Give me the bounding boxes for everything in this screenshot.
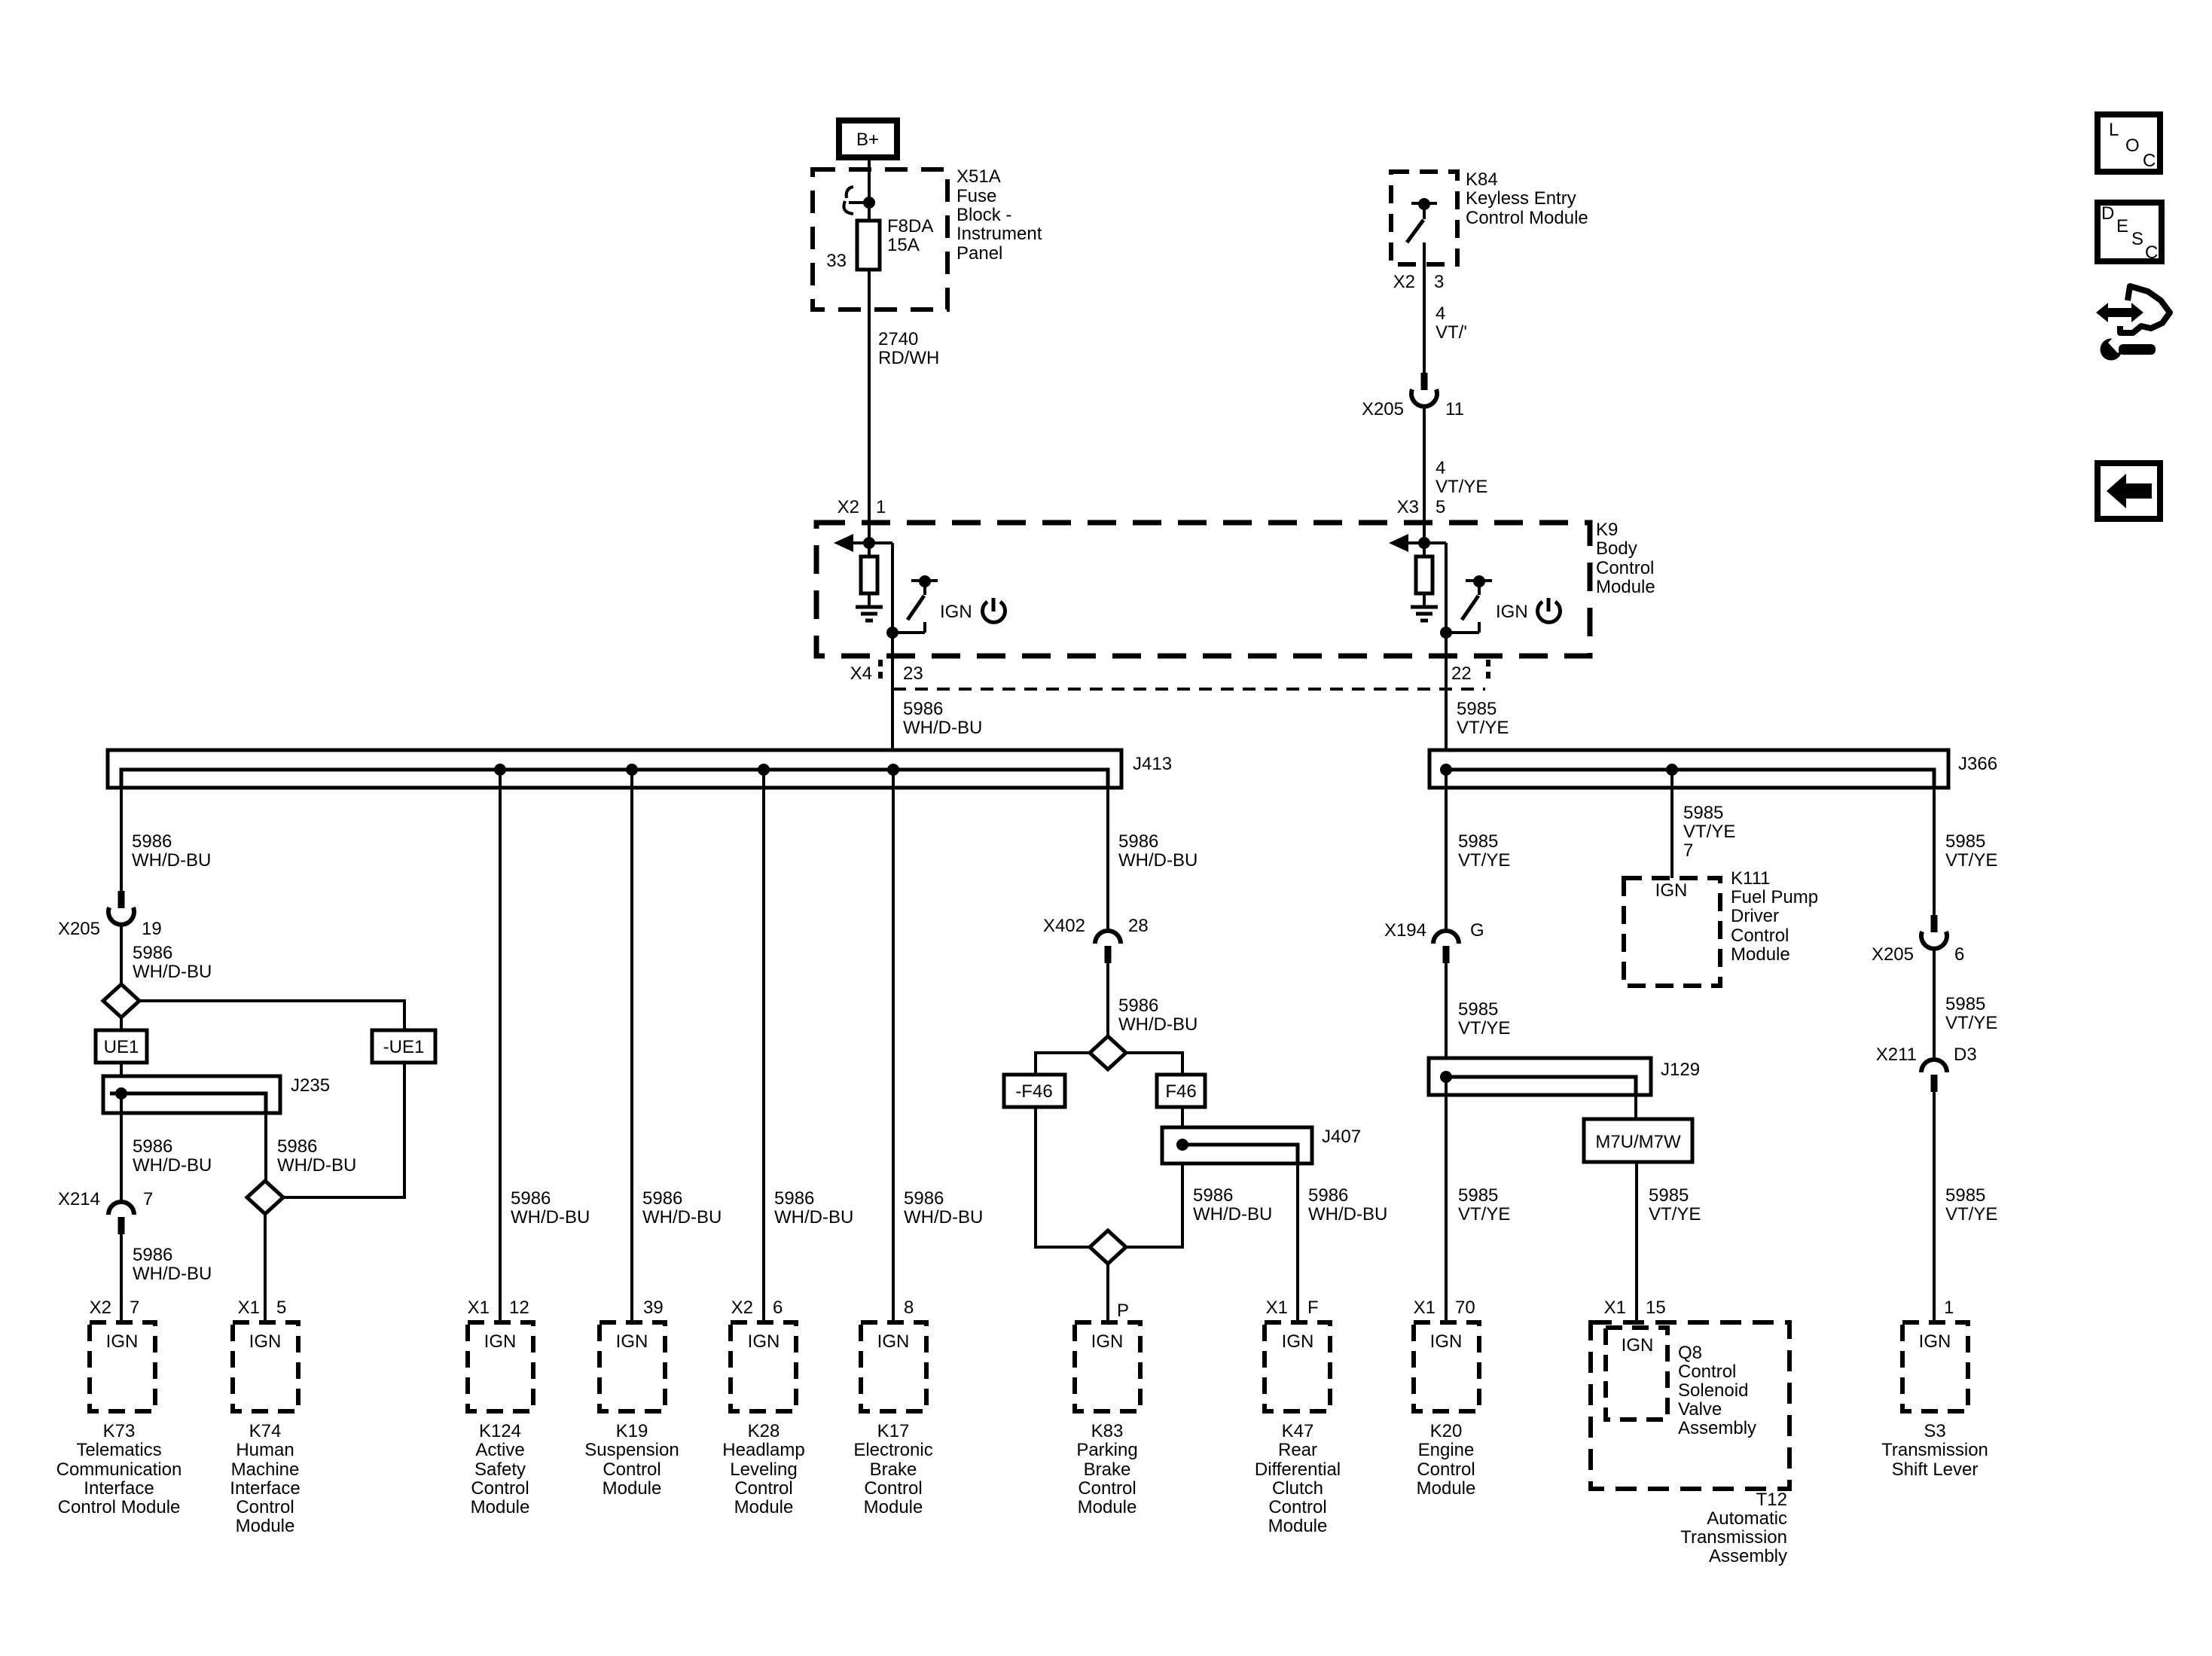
node K9 right output junction <box>1440 627 1452 639</box>
module K17 dashed box <box>861 1322 926 1411</box>
svg-text:VT/YE: VT/YE <box>1683 822 1735 842</box>
inline connector X205 pin 6 <box>1921 915 1947 949</box>
svg-text:M7U/M7W: M7U/M7W <box>1595 1132 1681 1152</box>
wire K9 X4-23 to bus J413 <box>891 633 894 770</box>
splice pack bus J235 <box>103 1076 280 1113</box>
svg-text:6: 6 <box>1954 944 1964 965</box>
module K73 dashed box <box>90 1322 155 1411</box>
fuse block tap junction <box>844 187 875 214</box>
svg-text:4: 4 <box>1436 458 1445 478</box>
svg-text:X1: X1 <box>468 1298 490 1318</box>
node J413 tap K28 <box>758 764 770 776</box>
svg-text:Module: Module <box>236 1516 295 1536</box>
svg-text:5985: 5985 <box>1458 1185 1498 1206</box>
svg-text:K28: K28 <box>748 1421 780 1441</box>
wire F46 through J407 to lower splice <box>1126 1107 1182 1247</box>
svg-text:Control Module: Control Module <box>58 1497 181 1517</box>
splice diamond at K74 <box>247 1181 283 1214</box>
svg-text:VT/YE: VT/YE <box>1458 1204 1510 1224</box>
svg-text:Q8: Q8 <box>1678 1343 1702 1363</box>
svg-text:K9: K9 <box>1596 520 1618 540</box>
svg-text:WH/D-BU: WH/D-BU <box>903 718 982 738</box>
label 5985 VT/YE S3 lower <box>1945 1185 1997 1224</box>
svg-text:Control: Control <box>864 1478 922 1499</box>
wire UE1 to J235 <box>120 1063 123 1093</box>
label X194 G <box>1384 920 1484 941</box>
svg-text:IGN: IGN <box>106 1331 139 1352</box>
wire J129 to M7U/M7W <box>1634 1095 1637 1119</box>
splice pack bus J366 <box>1429 750 1948 788</box>
svg-text:5986: 5986 <box>1118 831 1158 852</box>
wire J413 to K124 <box>499 770 502 1322</box>
svg-text:X2: X2 <box>1393 272 1415 292</box>
svg-text:K111: K111 <box>1731 868 1771 889</box>
svg-text:J407: J407 <box>1322 1127 1361 1147</box>
label K84 Keyless Entry Control Module <box>1466 169 1588 228</box>
svg-text:X3: X3 <box>1397 497 1419 517</box>
svg-text:K84: K84 <box>1466 169 1498 190</box>
svg-text:VT/YE: VT/YE <box>1945 1204 1997 1224</box>
label 5986 WH/D-BU above F46 splice <box>1118 996 1198 1035</box>
svg-text:C: C <box>2143 151 2156 171</box>
svg-text:IGN: IGN <box>1282 1331 1314 1352</box>
svg-text:5986: 5986 <box>133 1245 172 1265</box>
svg-text:Assembly: Assembly <box>1709 1546 1787 1566</box>
label K73 Telematics Communication Interface Control Module <box>56 1421 182 1517</box>
svg-text:Headlamp: Headlamp <box>722 1440 804 1460</box>
label pin X2 6 at K28 <box>731 1298 783 1318</box>
module K124 dashed box <box>468 1322 533 1411</box>
svg-text:WH/D-BU: WH/D-BU <box>774 1207 853 1228</box>
label pin X2 7 at K73 <box>90 1298 140 1318</box>
wire J413 to K17 <box>892 770 895 1322</box>
svg-text:Interface: Interface <box>84 1478 154 1499</box>
label K74 Human Machine Interface Control Module <box>230 1421 300 1536</box>
svg-text:Module: Module <box>1417 1478 1476 1499</box>
svg-text:Interface: Interface <box>230 1478 300 1499</box>
label pin X1 F at K47 <box>1266 1298 1319 1318</box>
svg-text:X214: X214 <box>58 1189 100 1209</box>
label X211 D3 <box>1876 1045 1977 1065</box>
wire J235 left leg to X214 <box>120 1093 123 1203</box>
label pin X3 5 at K9 <box>1397 497 1446 517</box>
label 5985 VT/YE mid S3 <box>1945 994 1997 1033</box>
inline connector X205 pin 19 <box>108 891 134 925</box>
wire J235 right leg down <box>264 1113 267 1181</box>
svg-text:B+: B+ <box>856 130 879 150</box>
svg-text:F46: F46 <box>1165 1081 1196 1102</box>
svg-text:Shift Lever: Shift Lever <box>1892 1459 1979 1480</box>
svg-text:Control: Control <box>1078 1478 1136 1499</box>
svg-text:WH/D-BU: WH/D-BU <box>277 1155 356 1176</box>
label 5986 WH/D-BU above K73 <box>133 1245 212 1284</box>
wire J366 to K111 <box>1670 770 1673 878</box>
svg-text:5986: 5986 <box>1308 1185 1348 1206</box>
svg-text:1: 1 <box>1944 1298 1954 1318</box>
label pin X2 1 at K9 <box>838 497 886 517</box>
svg-text:WH/D-BU: WH/D-BU <box>132 850 211 871</box>
svg-text:Machine: Machine <box>231 1459 300 1480</box>
label 5986 WH/D-BU above UE1 <box>133 943 212 982</box>
body control module K9 dashed box <box>816 523 1590 656</box>
svg-text:5986: 5986 <box>903 699 943 719</box>
svg-text:IGN: IGN <box>1496 602 1528 622</box>
svg-text:19: 19 <box>142 919 162 939</box>
svg-text:K73: K73 <box>103 1421 136 1441</box>
label X51A Fuse Block - Instrument Panel <box>956 166 1042 264</box>
wire J413 left end down to X205-19 <box>120 770 123 891</box>
assembly T12 outer dashed box <box>1591 1322 1789 1489</box>
svg-text:K20: K20 <box>1430 1421 1463 1441</box>
svg-text:J413: J413 <box>1133 754 1172 774</box>
svg-text:VT/YE: VT/YE <box>1457 718 1509 738</box>
svg-text:Control: Control <box>734 1478 792 1499</box>
label 5986 WH/D-BU above K83 splice <box>1193 1185 1272 1224</box>
svg-text:X2: X2 <box>90 1298 111 1318</box>
svg-text:IGN: IGN <box>1622 1335 1654 1356</box>
svg-text:X1: X1 <box>238 1298 260 1318</box>
svg-text:Module: Module <box>603 1478 662 1499</box>
svg-text:Panel: Panel <box>956 243 1002 264</box>
nav icon LOC box <box>2098 114 2160 172</box>
wire splice to -UE1 bottom <box>283 1063 404 1197</box>
svg-text:VT/YE: VT/YE <box>1945 850 1997 871</box>
svg-text:IGN: IGN <box>1919 1331 1951 1352</box>
wire J407 to K47 <box>1296 1163 1299 1322</box>
svg-text:Assembly: Assembly <box>1678 1418 1756 1438</box>
module K28 dashed box <box>731 1322 796 1411</box>
svg-text:X4: X4 <box>850 663 872 684</box>
svg-text:F8DA: F8DA <box>887 216 933 236</box>
jumper M7U/M7W <box>1584 1119 1692 1162</box>
svg-text:Keyless Entry: Keyless Entry <box>1466 188 1576 209</box>
label 5986 WH/D-BU left column <box>132 831 211 871</box>
svg-text:X2: X2 <box>838 497 859 517</box>
svg-text:J366: J366 <box>1958 754 1997 774</box>
svg-text:VT/YE: VT/YE <box>1458 1018 1510 1038</box>
label 5985 VT/YE K20 lower <box>1458 1185 1510 1224</box>
wire K9 left branch <box>869 543 892 633</box>
svg-text:Fuel Pump: Fuel Pump <box>1731 887 1818 907</box>
label K124 Active Safety Control Module <box>471 1421 530 1517</box>
label pin X1 12 at K124 <box>468 1298 529 1318</box>
svg-text:5986: 5986 <box>904 1188 944 1209</box>
svg-text:VT/': VT/' <box>1436 322 1467 343</box>
svg-text:IGN: IGN <box>1430 1331 1463 1352</box>
svg-text:IGN: IGN <box>748 1331 780 1352</box>
svg-text:WH/D-BU: WH/D-BU <box>904 1207 983 1228</box>
node J129 tap <box>1440 1071 1452 1083</box>
svg-text:X205: X205 <box>1362 399 1404 419</box>
svg-text:15: 15 <box>1646 1298 1666 1318</box>
label K20 Engine Control Module <box>1417 1421 1476 1499</box>
svg-text:Block -: Block - <box>956 205 1011 225</box>
svg-text:Automatic: Automatic <box>1707 1508 1787 1529</box>
jumper F46 <box>1157 1075 1205 1107</box>
node J235 tap <box>115 1087 127 1099</box>
svg-text:5985: 5985 <box>1945 1185 1985 1206</box>
svg-text:Control: Control <box>1731 926 1789 946</box>
nav icon harness routing curved arrow <box>2120 286 2170 333</box>
svg-text:5986: 5986 <box>133 943 172 963</box>
label K83 Parking Brake Control Module <box>1076 1421 1137 1517</box>
svg-text:Control: Control <box>1268 1497 1326 1517</box>
svg-text:7: 7 <box>1683 840 1693 861</box>
label 5985 VT/YE K20 upper <box>1458 831 1510 871</box>
svg-text:Brake: Brake <box>870 1459 917 1480</box>
svg-text:8: 8 <box>904 1298 914 1318</box>
svg-text:28: 28 <box>1128 916 1149 936</box>
label X402 28 <box>1043 916 1149 936</box>
label X205 11 <box>1362 399 1464 419</box>
svg-text:K19: K19 <box>616 1421 648 1441</box>
node J413 tap K124 <box>494 764 506 776</box>
svg-text:Instrument: Instrument <box>956 224 1042 244</box>
svg-text:C: C <box>2145 242 2158 263</box>
resistor K9 right pull-down <box>1416 543 1432 605</box>
jumper UE1 <box>96 1030 147 1063</box>
svg-text:X1: X1 <box>1414 1298 1436 1318</box>
svg-text:Module: Module <box>1731 944 1790 965</box>
wire J366 to X194 <box>1445 770 1448 932</box>
svg-text:J235: J235 <box>291 1075 330 1096</box>
svg-text:Control Module: Control Module <box>1466 208 1588 228</box>
svg-text:K47: K47 <box>1282 1421 1314 1441</box>
svg-text:5986: 5986 <box>642 1188 682 1209</box>
svg-text:5985: 5985 <box>1457 699 1497 719</box>
label X205 6 <box>1872 944 1964 965</box>
svg-text:Brake: Brake <box>1084 1459 1131 1480</box>
svg-text:Control: Control <box>1417 1459 1475 1480</box>
svg-text:IGN: IGN <box>1655 880 1688 901</box>
node K9 right input junction <box>1418 537 1430 549</box>
node J366 tap K20 <box>1440 764 1452 776</box>
svg-text:Module: Module <box>864 1497 923 1517</box>
label 5986 WH/D-BU K17 <box>904 1188 983 1228</box>
svg-text:Electronic: Electronic <box>853 1440 932 1460</box>
jumper -UE1 <box>372 1030 435 1063</box>
svg-text:WH/D-BU: WH/D-BU <box>1118 1014 1198 1035</box>
svg-text:J129: J129 <box>1661 1060 1700 1080</box>
svg-text:5: 5 <box>1436 497 1445 517</box>
svg-text:Module: Module <box>471 1497 530 1517</box>
label S3 Transmission Shift Lever <box>1881 1421 1988 1480</box>
wire X214 to K73 <box>120 1234 123 1322</box>
svg-text:IGN: IGN <box>484 1331 517 1352</box>
svg-text:12: 12 <box>509 1298 529 1318</box>
svg-text:VT/YE: VT/YE <box>1649 1204 1701 1224</box>
fuse block X51A dashed box <box>813 169 947 310</box>
svg-text:X2: X2 <box>731 1298 753 1318</box>
wire X205-6 to X211 <box>1933 949 1936 1061</box>
svg-text:5986: 5986 <box>1118 996 1158 1016</box>
wire -F46 to lower splice <box>1036 1107 1090 1247</box>
svg-text:Fuse: Fuse <box>956 186 996 206</box>
nav icon DESC box <box>2098 203 2162 263</box>
svg-text:WH/D-BU: WH/D-BU <box>1193 1204 1272 1224</box>
splice diamond above K83 <box>1090 1231 1126 1264</box>
arrow into K9 right <box>1389 534 1424 552</box>
module Q8 inner dashed box <box>1606 1328 1667 1420</box>
svg-text:X205: X205 <box>1872 944 1914 965</box>
splice pack bus J129 <box>1429 1058 1651 1095</box>
svg-text:Solenoid: Solenoid <box>1678 1380 1748 1401</box>
wire B+ to fuse F8DA <box>868 160 871 221</box>
label T12 Automatic Transmission Assembly <box>1680 1490 1787 1566</box>
wire splice to K83 <box>1106 1264 1109 1322</box>
svg-text:S3: S3 <box>1924 1421 1945 1441</box>
svg-text:X194: X194 <box>1384 920 1426 941</box>
svg-text:Leveling: Leveling <box>730 1459 797 1480</box>
inline connector X402 pin 28 <box>1095 931 1121 963</box>
label 5985 VT/YE above J129 <box>1458 999 1510 1038</box>
label 5985 VT/YE below K9 <box>1457 699 1509 738</box>
label K17 Electronic Brake Control Module <box>853 1421 932 1517</box>
label pin X1 5 at K74 <box>238 1298 287 1318</box>
module K111 dashed box <box>1624 878 1720 986</box>
svg-text:IGN: IGN <box>877 1331 910 1352</box>
keyless entry module K84 dashed box <box>1391 172 1457 264</box>
svg-text:G: G <box>1470 920 1484 941</box>
svg-text:5986: 5986 <box>1193 1185 1233 1206</box>
svg-text:Engine: Engine <box>1418 1440 1475 1460</box>
fuse F8DA 15A <box>857 221 880 270</box>
svg-text:15A: 15A <box>887 235 920 255</box>
svg-text:2740: 2740 <box>878 329 918 349</box>
svg-text:VT/YE: VT/YE <box>1458 850 1510 871</box>
label 5986 WH/D-BU K19 <box>642 1188 722 1228</box>
label pin X1 15 at T12 <box>1604 1298 1666 1318</box>
svg-text:IGN: IGN <box>616 1331 648 1352</box>
wire J413 to K19 <box>630 770 633 1322</box>
label K28 Headlamp Leveling Control Module <box>722 1421 804 1517</box>
svg-text:Body: Body <box>1596 538 1637 559</box>
svg-text:Driver: Driver <box>1731 906 1779 926</box>
svg-text:VT/YE: VT/YE <box>1436 477 1487 497</box>
module K19 dashed box <box>600 1322 665 1411</box>
svg-text:5986: 5986 <box>133 1136 172 1157</box>
svg-text:5985: 5985 <box>1649 1185 1689 1206</box>
svg-text:K74: K74 <box>249 1421 282 1441</box>
label 5986 WH/D-BU K124 <box>511 1188 590 1228</box>
svg-text:5985: 5985 <box>1683 803 1723 823</box>
svg-text:Control: Control <box>236 1497 294 1517</box>
svg-text:WH/D-BU: WH/D-BU <box>1118 850 1198 871</box>
svg-text:K17: K17 <box>877 1421 910 1441</box>
wire K9 right branch <box>1424 543 1446 633</box>
label K111 Fuel Pump Driver Control Module <box>1731 868 1818 965</box>
label 5986 WH/D-BU above K74 splice <box>277 1136 356 1176</box>
module K74 dashed box <box>233 1322 298 1411</box>
label K47 Rear Differential Clutch Control Module <box>1255 1421 1341 1536</box>
svg-text:Control: Control <box>1678 1362 1736 1382</box>
node K9 left output junction <box>886 627 899 639</box>
wire splice to -UE1 <box>139 1001 404 1030</box>
svg-text:VT/YE: VT/YE <box>1945 1013 1997 1033</box>
label 4 VT/ <box>1436 303 1467 343</box>
wire J413 right end down to X402 <box>1106 770 1109 932</box>
svg-text:Module: Module <box>734 1497 794 1517</box>
label 5985 VT/YE T12 <box>1649 1185 1701 1224</box>
label 5986 WH/D-BU right column <box>1118 831 1198 871</box>
ground K9 right internal <box>1411 607 1438 621</box>
svg-text:X211: X211 <box>1876 1045 1917 1065</box>
svg-text:7: 7 <box>130 1298 139 1318</box>
wire splice to F46 <box>1126 1053 1182 1075</box>
switch IGN K9 left <box>892 575 938 633</box>
module K47 dashed box <box>1265 1322 1330 1411</box>
svg-text:WH/D-BU: WH/D-BU <box>1308 1204 1387 1224</box>
svg-text:WH/D-BU: WH/D-BU <box>133 1264 212 1284</box>
svg-text:5985: 5985 <box>1945 994 1985 1014</box>
svg-text:O: O <box>2125 136 2140 156</box>
module S3 dashed box <box>1902 1322 1968 1411</box>
svg-text:-UE1: -UE1 <box>383 1037 425 1057</box>
svg-text:39: 39 <box>643 1298 664 1318</box>
svg-text:Suspension: Suspension <box>584 1440 679 1460</box>
wire J413 to K28 <box>762 770 765 1322</box>
wire 2740 RD/WH fuse to K9 X2-1 <box>868 270 871 542</box>
inline connector X205 pin 11 <box>1411 373 1437 407</box>
svg-text:X51A: X51A <box>956 166 1001 187</box>
jumper -F46 <box>1004 1075 1065 1107</box>
wire J366 right end to X205-6 <box>1933 788 1936 915</box>
svg-text:3: 3 <box>1434 272 1444 292</box>
inline connector X214 pin 7 <box>108 1202 134 1234</box>
svg-text:Module: Module <box>1268 1516 1328 1536</box>
svg-text:Safety: Safety <box>474 1459 526 1480</box>
svg-text:5986: 5986 <box>774 1188 814 1209</box>
svg-text:7: 7 <box>143 1189 153 1209</box>
svg-text:Transmission: Transmission <box>1881 1440 1988 1460</box>
svg-text:Valve: Valve <box>1678 1399 1722 1420</box>
splice diamond at UE1 <box>103 984 139 1017</box>
label Q8 Control Solenoid Valve Assembly <box>1678 1343 1756 1438</box>
svg-text:Control: Control <box>471 1478 529 1499</box>
resistor K9 left pull-down <box>861 543 877 605</box>
svg-text:1: 1 <box>876 497 886 517</box>
module K83 dashed box <box>1075 1322 1140 1411</box>
nav icon back arrow box <box>2098 463 2160 519</box>
svg-text:Human: Human <box>236 1440 294 1460</box>
wire K9 X4-22 to bus J366 <box>1445 633 1448 770</box>
svg-text:Control: Control <box>1596 558 1654 578</box>
svg-text:6: 6 <box>773 1298 783 1318</box>
svg-text:Parking: Parking <box>1076 1440 1137 1460</box>
switch IGN K9 right <box>1446 575 1492 633</box>
wire UE1 top <box>120 1017 123 1030</box>
svg-text:Module: Module <box>1078 1497 1137 1517</box>
svg-text:22: 22 <box>1451 663 1472 684</box>
svg-text:X402: X402 <box>1043 916 1085 936</box>
svg-text:Module: Module <box>1596 577 1655 597</box>
svg-text:D3: D3 <box>1954 1045 1977 1065</box>
svg-text:5986: 5986 <box>277 1136 317 1157</box>
module K20 dashed box <box>1414 1322 1479 1411</box>
label 5986 WH/D-BU K28 <box>774 1188 853 1228</box>
svg-text:X1: X1 <box>1604 1298 1626 1318</box>
wire X194 to J129 <box>1445 963 1448 1077</box>
label X214 7 <box>58 1189 153 1209</box>
label pin X1 70 at K20 <box>1414 1298 1475 1318</box>
svg-text:23: 23 <box>903 663 923 684</box>
K84 internal ignition switch <box>1407 198 1437 242</box>
battery feed B+ symbol <box>839 120 897 157</box>
svg-text:UE1: UE1 <box>104 1037 139 1057</box>
svg-text:K83: K83 <box>1091 1421 1124 1441</box>
svg-text:IGN: IGN <box>249 1331 282 1352</box>
svg-text:70: 70 <box>1455 1298 1475 1318</box>
